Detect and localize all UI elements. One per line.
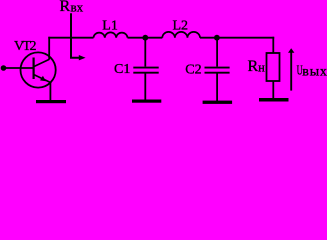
node A: [142, 35, 148, 41]
inductor L2: [162, 32, 200, 38]
node B: [214, 35, 220, 41]
ground (C2): [203, 101, 233, 104]
transistor VT2: [20, 52, 55, 87]
resistor Rн: [267, 53, 280, 81]
svg-text:L2: L2: [173, 18, 189, 33]
svg-text:C1: C1: [114, 62, 130, 77]
svg-text:L1: L1: [102, 18, 118, 33]
svg-text:R: R: [248, 58, 259, 75]
capacitor C2: [205, 38, 230, 101]
svg-text:н: н: [258, 60, 265, 74]
svg-text:вх: вх: [71, 0, 84, 15]
svg-text:вых: вых: [302, 65, 327, 80]
ground (C1): [132, 100, 161, 103]
svg-text:R: R: [60, 0, 71, 15]
wire Rн to ground: [272, 81, 274, 99]
ground (emitter): [36, 100, 66, 103]
svg-text:VT2: VT2: [14, 39, 36, 54]
svg-text:C2: C2: [185, 62, 201, 77]
wire L2 to node B to corner: [200, 37, 274, 39]
label Uвых: [297, 63, 327, 79]
label Rвх: [60, 0, 84, 15]
node dot base input: [1, 65, 7, 71]
wire base lead: [4, 67, 34, 69]
capacitor C1: [133, 38, 158, 100]
wire rail corner down to Rн: [272, 37, 274, 54]
wire L1 to node A: [128, 37, 163, 39]
label Rн: [248, 58, 266, 75]
wire emitter vertical: [49, 82, 51, 101]
wire collector vertical: [48, 37, 50, 60]
wire top rail left segment: [48, 37, 93, 39]
Rвх pointer arrow: [71, 13, 86, 60]
arrow Uвых: [288, 48, 294, 90]
inductor L1: [94, 32, 128, 37]
ground (Rн): [259, 98, 289, 102]
